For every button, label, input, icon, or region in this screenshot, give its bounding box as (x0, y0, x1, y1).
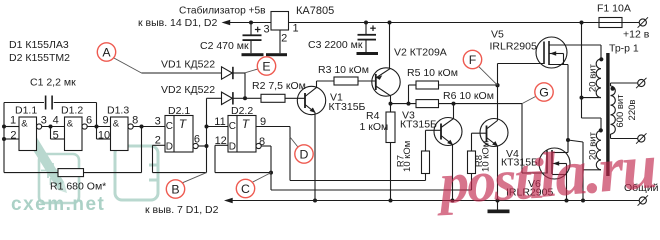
svg-text:20 вит: 20 вит (587, 63, 598, 92)
svg-text:2: 2 (281, 33, 287, 45)
svg-text:D1.2: D1.2 (61, 105, 83, 117)
svg-text:к выв. 7 D1, D2: к выв. 7 D1, D2 (145, 204, 219, 216)
svg-text:1 кОм: 1 кОм (360, 121, 389, 133)
svg-text:+12 в: +12 в (623, 29, 650, 41)
svg-text:3: 3 (41, 114, 47, 126)
svg-text:Стабилизатор +5в: Стабилизатор +5в (179, 5, 266, 17)
svg-text:R2 7,5 кОм: R2 7,5 кОм (252, 80, 306, 92)
svg-text:&: & (67, 118, 74, 129)
svg-text:V2 КТ209А: V2 КТ209А (394, 47, 447, 59)
svg-text:R6 10 кОм: R6 10 кОм (443, 90, 494, 102)
svg-text:8: 8 (132, 114, 138, 126)
svg-text:4: 4 (53, 114, 59, 126)
svg-text:3: 3 (155, 116, 161, 128)
svg-text:3: 3 (263, 24, 269, 36)
svg-text:A: A (102, 46, 111, 60)
svg-text:КТ315Б: КТ315Б (400, 119, 437, 131)
svg-text:cxem.net: cxem.net (11, 194, 105, 215)
svg-text:VD2 КД522: VD2 КД522 (161, 84, 215, 96)
svg-text:D1.1: D1.1 (15, 105, 37, 117)
svg-text:5: 5 (53, 130, 59, 142)
svg-text:B: B (171, 183, 179, 197)
svg-text:220в: 220в (627, 100, 638, 121)
svg-text:1: 1 (10, 114, 16, 126)
svg-text:posti: posti (433, 146, 546, 217)
svg-text:E: E (262, 60, 270, 74)
svg-text:КТ315Б: КТ315Б (329, 101, 366, 113)
svg-text:КА7805: КА7805 (296, 5, 334, 17)
svg-text:600 вит: 600 вит (615, 94, 626, 128)
svg-text:G: G (539, 86, 549, 100)
svg-text:1: 1 (292, 23, 298, 35)
svg-text:VD1 КД522: VD1 КД522 (161, 59, 215, 71)
svg-text:D1 К155ЛА3: D1 К155ЛА3 (9, 39, 69, 51)
svg-text:D: D (300, 148, 309, 162)
svg-text:F: F (469, 53, 477, 67)
svg-text:V5: V5 (491, 29, 504, 41)
svg-text:10 кОм: 10 кОм (402, 141, 413, 172)
svg-text:C: C (241, 182, 250, 196)
svg-text:D2.1: D2.1 (168, 105, 190, 117)
svg-text:la.ru: la.ru (536, 130, 658, 211)
svg-text:11: 11 (214, 116, 225, 128)
svg-text:&: & (21, 118, 28, 129)
svg-text:C: C (166, 121, 173, 132)
svg-text:к выв. 14 D1, D2: к выв. 14 D1, D2 (138, 17, 217, 29)
svg-text:R1 680 Ом*: R1 680 Ом* (50, 180, 106, 192)
svg-text:R5 10 кОм: R5 10 кОм (407, 67, 458, 79)
svg-text:С1 2,2 мк: С1 2,2 мк (30, 77, 76, 89)
svg-text:2: 2 (10, 130, 16, 142)
svg-text:6: 6 (86, 114, 92, 126)
svg-text:&: & (113, 118, 120, 129)
svg-text:D2 К155ТМ2: D2 К155ТМ2 (9, 52, 70, 64)
svg-text:6: 6 (194, 133, 200, 145)
svg-text:D: D (229, 142, 236, 153)
svg-text:C: C (229, 121, 236, 132)
svg-text:С3 2200 мк: С3 2200 мк (308, 39, 363, 51)
svg-text:2: 2 (155, 135, 161, 147)
svg-text:R3 10 кОм: R3 10 кОм (318, 64, 369, 76)
svg-text:С2 470 мк: С2 470 мк (200, 40, 249, 52)
svg-text:F1 10А: F1 10А (597, 3, 631, 15)
svg-text:Тр-р 1: Тр-р 1 (609, 43, 639, 55)
svg-text:D1.3: D1.3 (107, 105, 129, 117)
svg-text:9: 9 (102, 114, 108, 126)
svg-text:D: D (166, 142, 173, 153)
svg-text:10: 10 (98, 130, 110, 142)
svg-text:IRLR2905: IRLR2905 (490, 41, 537, 53)
svg-text:D2.2: D2.2 (231, 105, 253, 117)
